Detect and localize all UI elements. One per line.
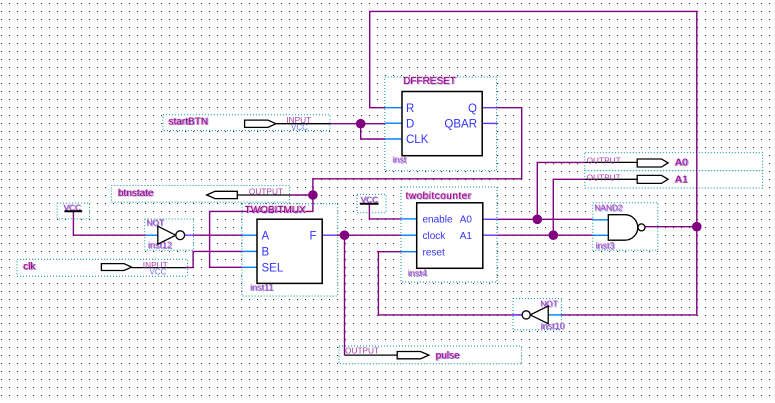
svg-text:D: D [406, 118, 414, 130]
DFFRESET pin stub Q [482, 107, 497, 109]
MUX pin stub A [242, 234, 257, 236]
startBTN pin lead [276, 123, 330, 125]
DFFRESET pin stub R [385, 107, 402, 109]
svg-text:NOT: NOT [146, 217, 164, 227]
svg-text:startBTN: startBTN [169, 117, 208, 128]
svg-text:R: R [406, 103, 414, 115]
junction node: A0 [533, 215, 543, 225]
MUX pin stub B [242, 250, 257, 252]
wire: VCC1 to NOT inst12 input [73, 211, 145, 235]
wire: btnstate node to SEL [210, 195, 313, 267]
NAND2 gate inst3: selection box [593, 203, 658, 251]
VCC power symbol 2: selection box [357, 194, 386, 212]
junction node: startBTN D/CLK [356, 119, 366, 129]
input pin clk: selection box [17, 259, 188, 276]
svg-text:Q: Q [468, 103, 477, 115]
wire: NOT inst12 output to MUX A [194, 234, 243, 236]
svg-text:A0: A0 [675, 158, 688, 169]
wire: clk pin to MUX B [186, 251, 242, 267]
wire: counter A1 to NAND input 2 [498, 234, 593, 236]
svg-text:NAND2: NAND2 [594, 202, 623, 212]
VCC power symbol 1: selection box [57, 203, 89, 219]
svg-text:B: B [262, 246, 270, 258]
svg-text:enable: enable [423, 215, 453, 226]
wire: A1 node up to OUTPUT pin A1 [553, 179, 585, 235]
MUX pin stub F [321, 234, 337, 236]
wire: NAND2 output to feedback node [645, 226, 697, 228]
svg-text:A0: A0 [460, 215, 473, 226]
wire: F node down to pulse pin [344, 235, 346, 355]
A0 pin symbol [637, 159, 668, 167]
counter pin stub clock [401, 234, 416, 236]
NAND input stub 1 [593, 219, 609, 221]
pulse pin lead [345, 354, 398, 356]
NOT10 output stub [513, 314, 522, 316]
svg-text:VCC: VCC [291, 123, 308, 132]
twobitcounter instance: selection box [401, 187, 497, 282]
btnstate pin symbol [207, 191, 238, 198]
wire: startBTN to D [330, 123, 385, 125]
svg-text:CLK: CLK [406, 134, 429, 146]
input pin startBTN: selection box [163, 115, 330, 131]
output pin A1: selection box [585, 171, 763, 188]
svg-text:DFFRESET: DFFRESET [403, 76, 456, 87]
svg-text:inst3: inst3 [595, 240, 614, 250]
TWOBITMUX body box [257, 219, 322, 283]
clk pin lead [132, 267, 187, 269]
VCC1 bar [64, 210, 82, 212]
A1 pin symbol [637, 175, 668, 183]
NOT10 input stub [548, 314, 561, 316]
NAND2 bubble [638, 224, 645, 231]
wire: NAND feedback top loop to DFF R [370, 11, 697, 226]
DFFRESET pin stub QBAR [482, 122, 497, 124]
NAND input stub 2 [593, 234, 609, 236]
svg-text:OUTPUT: OUTPUT [587, 173, 621, 183]
svg-text:pulse: pulse [436, 350, 460, 361]
NOT10 bubble [522, 311, 530, 319]
A1 pin lead [585, 178, 637, 180]
counter pin stub enable [401, 218, 416, 220]
svg-text:NOT: NOT [540, 298, 558, 308]
VCC2 bar [360, 203, 379, 205]
NOT input stub [146, 234, 158, 236]
svg-text:clock: clock [423, 231, 447, 242]
wire: counter A0 to NAND input 1 [498, 218, 593, 220]
wire: VCC2 to counter enable [369, 204, 401, 219]
startBTN pin symbol [245, 120, 276, 127]
wire: feedback down to NOT inst10 input [561, 227, 696, 315]
svg-text:F: F [309, 230, 316, 242]
svg-text:A: A [262, 230, 270, 242]
svg-text:QBAR: QBAR [444, 118, 477, 130]
pulse pin symbol [397, 352, 429, 359]
twobitcounter body box [417, 203, 483, 268]
DFFRESET body box [402, 92, 482, 156]
wire: btnstate pin to node [290, 194, 313, 196]
junction node: btnstate/Q/SEL [308, 190, 318, 200]
svg-text:clk: clk [23, 261, 36, 272]
junction node: A1 [549, 230, 559, 240]
junction node: NAND output feedback [692, 222, 702, 232]
svg-text:TWOBITMUX: TWOBITMUX [245, 205, 306, 216]
NOT triangle [158, 226, 176, 244]
svg-text:VCC: VCC [150, 268, 167, 277]
TWOBITMUX instance: selection box [242, 204, 338, 296]
output pin A0: selection box [585, 153, 763, 171]
svg-text:A1: A1 [675, 174, 688, 185]
wire: NOT inst10 output to counter reset [378, 252, 522, 315]
junction node: F/clock/pulse [340, 230, 350, 240]
svg-text:OUTPUT: OUTPUT [249, 187, 283, 197]
DFFRESET pin stub CLK [385, 138, 402, 140]
counter pin stub A1 [483, 234, 498, 236]
svg-text:OUTPUT: OUTPUT [587, 156, 621, 166]
svg-text:reset: reset [423, 247, 445, 258]
svg-text:btnstate: btnstate [118, 188, 154, 199]
DFFRESET instance U: selection box [385, 77, 497, 171]
wire: startBTN branch to CLK [361, 124, 385, 139]
wire: MUX F to counter clock [337, 234, 401, 236]
NOT gate inst10 (mirrored): selection box [513, 299, 561, 330]
svg-text:SEL: SEL [262, 262, 284, 274]
svg-text:inst4: inst4 [408, 268, 427, 278]
MUX pin stub SEL [242, 266, 257, 268]
btnstate pin lead [237, 194, 289, 196]
counter pin stub A0 [483, 218, 498, 220]
output pin btnstate: selection box [111, 186, 289, 203]
NOT bubble [176, 231, 185, 240]
NOT output stub [185, 234, 194, 236]
NOT gate inst12: selection box [145, 219, 194, 250]
DFFRESET pin stub D [385, 122, 402, 124]
svg-text:OUTPUT: OUTPUT [345, 346, 379, 356]
wire: Q to btnstate node [313, 108, 522, 195]
svg-text:twobitcounter: twobitcounter [406, 191, 472, 202]
counter pin stub reset [401, 251, 416, 253]
clk pin symbol [101, 264, 131, 271]
svg-text:A1: A1 [460, 231, 473, 242]
wire: A0 node up to OUTPUT pin A0 [537, 162, 585, 219]
NAND2 gate body [608, 215, 637, 241]
A0 pin lead [585, 161, 637, 163]
NOT10 triangle [530, 306, 548, 324]
output pin pulse: selection box [339, 346, 522, 364]
